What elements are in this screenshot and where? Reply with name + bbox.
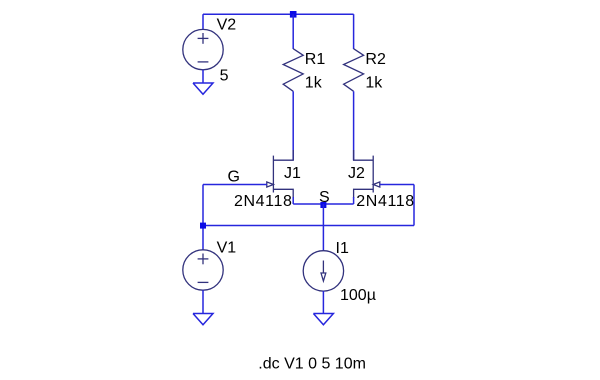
svg-text:100µ: 100µ: [340, 287, 376, 304]
svg-text:J1: J1: [284, 165, 301, 182]
wire R2 to J2 drain: [353, 91, 355, 160]
wire R1 to J1 drain: [292, 91, 294, 160]
wire R1 top: [292, 14, 294, 49]
wire S to I1: [322, 204, 324, 251]
resistor R2: [344, 49, 364, 92]
ground (below V2): [193, 83, 213, 94]
wire top rail: [203, 13, 354, 15]
wire bottom horizontal: [203, 225, 414, 227]
svg-text:5: 5: [220, 68, 229, 85]
svg-text:1k: 1k: [305, 75, 323, 92]
wire gate J2: [380, 184, 414, 186]
wire R2 top: [353, 14, 355, 49]
wire S horizontal: [293, 203, 353, 205]
svg-text:2N4118: 2N4118: [356, 193, 414, 210]
ground (below V1): [193, 314, 213, 325]
svg-text:I1: I1: [336, 240, 349, 257]
wire I1 to ground: [322, 291, 324, 313]
svg-text:G: G: [228, 169, 240, 186]
svg-text:.dc V1 0 5 10m: .dc V1 0 5 10m: [258, 355, 366, 372]
wire J2 source lead: [353, 197, 355, 204]
svg-text:1k: 1k: [365, 75, 383, 92]
node N001 junction (top): [290, 11, 297, 18]
voltage source V1: [183, 250, 223, 290]
wire left vertical (G to V1): [202, 185, 204, 251]
current source I1: [303, 251, 343, 291]
svg-text:V2: V2: [217, 17, 237, 34]
wire right vertical: [413, 185, 415, 226]
wire V2 top lead: [202, 14, 204, 30]
transistor J1 (NJF): [267, 150, 293, 198]
svg-text:V1: V1: [217, 240, 237, 257]
wire gate J1: [203, 184, 267, 186]
wire V2 to ground: [202, 70, 204, 83]
ground (below I1): [313, 314, 333, 325]
svg-text:J2: J2: [348, 165, 365, 182]
transistor J2 (NJF, mirrored): [354, 150, 380, 198]
svg-text:R1: R1: [305, 51, 326, 68]
voltage source V2: [183, 29, 223, 69]
wire V1 to ground: [202, 290, 204, 313]
svg-text:R2: R2: [365, 51, 386, 68]
node N002 junction (left): [200, 223, 206, 229]
resistor R1: [283, 49, 303, 92]
node S junction: [320, 202, 326, 208]
wire J1 source lead: [292, 197, 294, 204]
svg-text:2N4118: 2N4118: [234, 193, 292, 210]
